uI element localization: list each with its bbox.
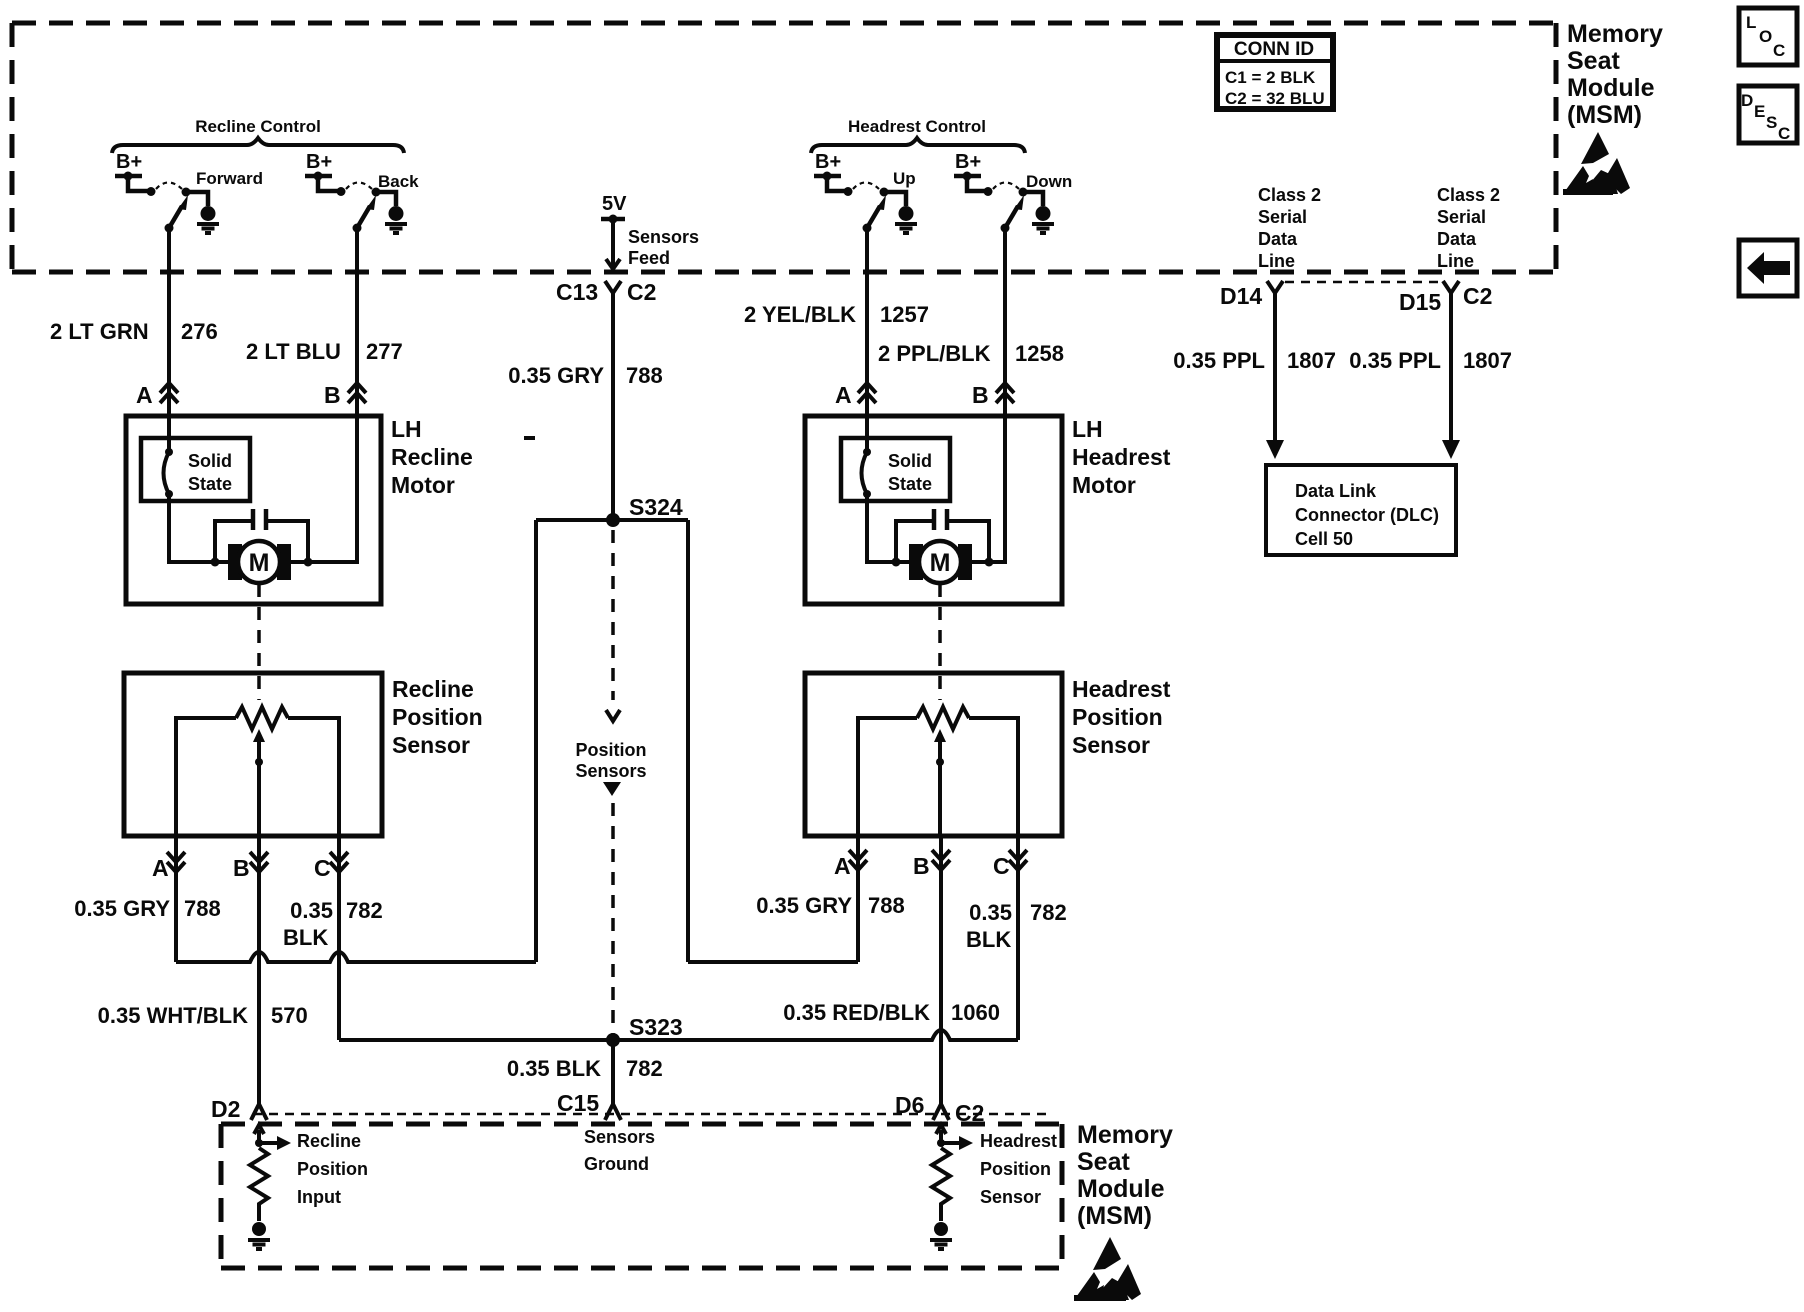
wire: recline pin B circuit 570 down to D2 (257, 836, 261, 1105)
svg-text:0.35 PPL: 0.35 PPL (1349, 348, 1441, 373)
pin B chevrons (recline motor) (324, 382, 366, 408)
wire: headrest pin A through solid state to motor (865, 416, 869, 452)
B+ feed (recline forward switch) (115, 151, 156, 196)
label: 0.35 BLK 782 (S323 to C15) (507, 1056, 663, 1081)
CONN ID table (1217, 35, 1333, 109)
pin C chevrons (headrest sensor) (993, 850, 1027, 879)
svg-text:D14: D14 (1220, 283, 1262, 309)
wire: S324 horizontal branch (536, 518, 688, 522)
connector D14 (1220, 281, 1283, 309)
solid state block (recline) (141, 438, 250, 501)
switch: headrest up (853, 169, 916, 233)
svg-text:A: A (834, 853, 851, 879)
ground (recline position input) (248, 1222, 270, 1249)
svg-text:1258: 1258 (1015, 341, 1064, 366)
svg-text:Module: Module (1077, 1175, 1165, 1203)
DESC reference box (1739, 86, 1797, 143)
svg-text:A: A (152, 855, 169, 881)
svg-text:State: State (888, 474, 932, 494)
label: 0.35 GRY 788 (recline A) (74, 896, 221, 921)
svg-text:S323: S323 (629, 1014, 683, 1040)
motor M2 (headrest) (909, 541, 972, 583)
svg-text:E: E (1754, 102, 1765, 121)
label: 0.35 WHT/BLK 570 (98, 1003, 308, 1028)
5V sensors feed source (601, 193, 627, 224)
svg-text:C2 = 32 BLU: C2 = 32 BLU (1225, 89, 1325, 108)
svg-text:Headrest: Headrest (1072, 444, 1171, 470)
wire: headrest pin B circuit 1060 down to D6 (939, 836, 943, 1105)
svg-text:C: C (993, 853, 1010, 879)
svg-text:Position: Position (392, 704, 483, 730)
capacitor across recline motor (211, 509, 313, 567)
svg-text:Solid: Solid (888, 451, 932, 471)
svg-text:Position: Position (576, 740, 647, 760)
svg-text:B+: B+ (815, 151, 841, 173)
svg-text:Sensors: Sensors (628, 227, 699, 247)
svg-text:782: 782 (346, 898, 383, 923)
svg-text:Position: Position (297, 1159, 368, 1179)
ground (headrest up switch) (895, 206, 917, 233)
pointer triangle (position sensors) (603, 782, 621, 796)
connector C15 (557, 1090, 621, 1120)
Headrest Position Sensor box (805, 673, 1062, 836)
potentiometer (headrest) (858, 707, 1018, 836)
svg-text:Sensor: Sensor (1072, 732, 1150, 758)
LH Recline Motor box (126, 416, 381, 604)
wire: recline pin C down to S323 bus (337, 836, 341, 1040)
svg-text:B: B (233, 855, 250, 881)
svg-text:B+: B+ (955, 151, 981, 173)
svg-text:A: A (835, 382, 852, 408)
svg-text:M: M (249, 549, 270, 577)
svg-text:C13: C13 (556, 279, 598, 305)
wire: down switch contact to ground (1023, 192, 1043, 206)
label: Sensors Feed (628, 227, 699, 268)
svg-text:Motor: Motor (1072, 472, 1136, 498)
svg-text:Recline: Recline (391, 444, 473, 470)
wire: forward switch contact to ground (186, 192, 208, 206)
svg-text:277: 277 (366, 339, 403, 364)
svg-text:A: A (136, 382, 153, 408)
wiper arrow (recline) (253, 729, 265, 836)
headrest position sensor arrow (936, 1125, 973, 1150)
svg-text:Headrest: Headrest (980, 1131, 1057, 1151)
svg-text:C1 = 2 BLK: C1 = 2 BLK (1225, 68, 1316, 87)
label: 0.35 RED/BLK 1060 (783, 1000, 1000, 1025)
Memory Seat Module (MSM) bottom dashed enclosure (221, 1124, 1062, 1268)
wire: feed bus from S324 right branch to headrest A (688, 960, 858, 964)
svg-text:B: B (913, 853, 930, 879)
svg-text:0.35: 0.35 (290, 898, 333, 923)
wire: circuit 782 from S323 down to C15 (611, 1040, 615, 1105)
svg-text:0.35 GRY: 0.35 GRY (508, 363, 604, 388)
svg-text:Down: Down (1026, 172, 1072, 191)
label: 0.35 PPL 1807 (left) (1173, 348, 1336, 373)
svg-text:2 YEL/BLK: 2 YEL/BLK (744, 302, 856, 327)
svg-text:2 PPL/BLK: 2 PPL/BLK (878, 341, 991, 366)
solid state switch curve (headrest) (862, 448, 872, 498)
svg-text:Recline Control: Recline Control (195, 117, 321, 136)
svg-text:Seat: Seat (1567, 47, 1620, 75)
label: Recline Position Sensor (392, 676, 483, 758)
wire: circuit 276 from forward switch to recline motor pin A (167, 228, 171, 416)
stray mark (524, 436, 535, 440)
svg-text:B+: B+ (306, 151, 332, 173)
svg-text:Cell 50: Cell 50 (1295, 529, 1353, 549)
svg-text:Motor: Motor (391, 472, 455, 498)
svg-text:Sensors: Sensors (575, 761, 646, 781)
svg-text:788: 788 (184, 896, 221, 921)
svg-text:(MSM): (MSM) (1567, 101, 1642, 129)
svg-text:Seat: Seat (1077, 1148, 1130, 1176)
motor M1 (recline) (228, 541, 291, 583)
connector row thin dashed line (bottom) (253, 1113, 1052, 1116)
mechanical link: position sensors dashed line with arrow (606, 530, 620, 721)
LH Headrest Motor box (805, 416, 1062, 604)
svg-text:Class 2: Class 2 (1437, 185, 1500, 205)
label: 0.35 GRY 788 (headrest A) (756, 893, 905, 918)
resistor (headrest position sensor) (932, 1148, 950, 1221)
svg-text:Line: Line (1437, 251, 1474, 271)
label: Sensors Ground (584, 1127, 655, 1174)
LOC reference box (1739, 8, 1797, 65)
svg-text:Position: Position (1072, 704, 1163, 730)
pin B chevrons (recline sensor) (233, 852, 268, 881)
svg-text:(MSM): (MSM) (1077, 1202, 1152, 1230)
svg-text:1257: 1257 (880, 302, 929, 327)
svg-text:Back: Back (378, 172, 419, 191)
wire: circuit 1807 from D15 to DLC (1442, 293, 1460, 459)
mechanical link: recline motor to position sensor (257, 584, 261, 700)
connector row dashed link D14 to D15 (1285, 281, 1441, 284)
Data Link Connector (DLC) box (1266, 465, 1456, 555)
pin B chevrons (headrest sensor) (913, 850, 950, 879)
label: Memory Seat Module (MSM) bottom right (1077, 1121, 1173, 1230)
pin A chevrons (headrest sensor) (834, 850, 867, 879)
svg-text:State: State (188, 474, 232, 494)
svg-text:Forward: Forward (196, 169, 263, 188)
label: Memory Seat Module (MSM) top right (1567, 20, 1663, 129)
wire: up switch contact to ground (884, 192, 906, 206)
svg-text:2 LT BLU: 2 LT BLU (246, 339, 341, 364)
pin A chevrons (recline sensor) (152, 852, 185, 881)
svg-text:Data Link: Data Link (1295, 481, 1377, 501)
svg-text:S324: S324 (629, 494, 683, 520)
label: 0.35 PPL 1807 (right) (1349, 348, 1512, 373)
wire: S324 right branch down (686, 520, 690, 962)
label: 0.35 GRY 788 (feed) (508, 363, 663, 388)
wiper arrow (headrest) (934, 729, 946, 836)
switch: recline forward (156, 169, 263, 233)
recline position input arrow (254, 1125, 291, 1150)
wire: pin A through solid state to motor (167, 416, 171, 452)
svg-text:Module: Module (1567, 74, 1655, 102)
svg-text:S: S (1766, 113, 1777, 132)
splice S323 (606, 1014, 683, 1047)
svg-text:Sensor: Sensor (392, 732, 470, 758)
label: Class 2 Serial Data Line (left) (1258, 185, 1321, 271)
wire: headrest pin B down to motor (971, 416, 1005, 562)
B+ feed (headrest up switch) (814, 151, 853, 196)
svg-text:CONN ID: CONN ID (1234, 39, 1314, 60)
svg-text:Input: Input (297, 1187, 341, 1207)
svg-text:Position: Position (980, 1159, 1051, 1179)
wire: circuit 1257 from up switch to headrest motor pin A (865, 228, 869, 416)
solid state block (headrest) (841, 438, 950, 501)
pin C chevrons (recline sensor) (314, 852, 348, 881)
wire: circuit 788 sensor feed down to S324 (611, 293, 615, 520)
svg-text:Class 2: Class 2 (1258, 185, 1321, 205)
svg-text:C2: C2 (1463, 283, 1492, 309)
wire: S323 ground bus (hops over headrest B) (339, 1030, 1018, 1040)
resistor (recline position input) (250, 1148, 268, 1221)
svg-text:1807: 1807 (1287, 348, 1336, 373)
label: 2 PPL/BLK 1258 (878, 341, 1064, 366)
wire: headrest pin A down to feed bus (856, 836, 860, 962)
svg-text:C: C (314, 855, 331, 881)
ground (headrest down switch) (1032, 206, 1054, 233)
wire: pin B down to motor (290, 416, 357, 562)
svg-text:LH: LH (1072, 416, 1103, 442)
label: Recline Position Input (297, 1131, 368, 1207)
wire: S324 left branch down (534, 520, 538, 962)
capacitor across headrest motor (892, 509, 994, 567)
svg-text:C2: C2 (627, 279, 656, 305)
svg-text:B: B (324, 382, 341, 408)
svg-text:Feed: Feed (628, 248, 670, 268)
brace over headrest control (811, 138, 1025, 153)
svg-text:BLK: BLK (966, 927, 1011, 952)
potentiometer (recline) (176, 707, 339, 836)
pin A chevrons (headrest motor) (835, 382, 876, 408)
ESD sensitivity symbol (bottom) (1074, 1237, 1141, 1301)
svg-text:Serial: Serial (1258, 207, 1307, 227)
svg-text:B+: B+ (116, 151, 142, 173)
switch: recline back (346, 172, 419, 233)
B+ feed (recline back switch) (305, 151, 346, 196)
svg-text:LH: LH (391, 416, 422, 442)
label: Class 2 Serial Data Line (right) (1437, 185, 1500, 271)
svg-text:BLK: BLK (283, 925, 328, 950)
svg-text:Memory: Memory (1077, 1121, 1173, 1149)
svg-text:C: C (1778, 124, 1790, 143)
B+ feed (headrest down switch) (954, 151, 993, 196)
mechanical link: dashed line continues to S323 (611, 803, 615, 1034)
label: LH Headrest Motor (1072, 416, 1171, 498)
svg-text:Data: Data (1258, 229, 1298, 249)
svg-text:0.35 PPL: 0.35 PPL (1173, 348, 1265, 373)
splice S324 (606, 494, 683, 527)
label: 2 LT BLU 277 (246, 339, 403, 364)
svg-text:D2: D2 (211, 1096, 240, 1122)
wire: feed bus from recline A to S324 left branch (hops over B and C) (176, 952, 536, 962)
connector D2 (211, 1096, 267, 1122)
switch: headrest down (993, 172, 1072, 233)
connector D6 / C2 (895, 1092, 984, 1126)
svg-text:788: 788 (626, 363, 663, 388)
svg-text:D15: D15 (1399, 289, 1441, 315)
svg-text:Recline: Recline (297, 1131, 361, 1151)
svg-text:Sensors: Sensors (584, 1127, 655, 1147)
svg-text:C2: C2 (955, 1100, 984, 1126)
svg-text:L: L (1746, 13, 1756, 32)
svg-text:Recline: Recline (392, 676, 474, 702)
wire: back switch contact to ground (376, 192, 396, 206)
svg-text:C: C (1773, 41, 1785, 60)
ground (recline forward switch) (197, 206, 219, 233)
svg-text:D6: D6 (895, 1092, 924, 1118)
svg-text:0.35 RED/BLK: 0.35 RED/BLK (783, 1000, 930, 1025)
label: Headrest Position Sensor (1072, 676, 1171, 758)
Memory Seat Module (MSM) top dashed enclosure (12, 23, 1556, 272)
svg-text:Headrest Control: Headrest Control (848, 117, 986, 136)
solid state switch curve (recline) (164, 448, 174, 498)
svg-text:1807: 1807 (1463, 348, 1512, 373)
mechanical link: headrest motor to position sensor (938, 584, 942, 700)
ground (recline back switch) (385, 206, 407, 233)
svg-text:0.35 WHT/BLK: 0.35 WHT/BLK (98, 1003, 248, 1028)
svg-text:782: 782 (1030, 900, 1067, 925)
label: Position Sensors (575, 740, 646, 781)
svg-text:782: 782 (626, 1056, 663, 1081)
label: Headrest Position Sensor (980, 1131, 1057, 1207)
label: 0.35 BLK 782 (recline C) (283, 898, 383, 950)
wire: recline pin A down to feed bus (174, 836, 178, 962)
wire: circuit 1258 from down switch to headrest motor pin B (1003, 228, 1007, 416)
svg-text:2 LT GRN: 2 LT GRN (50, 319, 149, 344)
svg-text:Connector (DLC): Connector (DLC) (1295, 505, 1439, 525)
svg-text:1060: 1060 (951, 1000, 1000, 1025)
pin A chevrons (recline motor) (136, 382, 178, 408)
ground (headrest position sensor) (930, 1222, 952, 1249)
svg-text:B: B (972, 382, 989, 408)
svg-text:570: 570 (271, 1003, 308, 1028)
svg-text:Serial: Serial (1437, 207, 1486, 227)
connector D15 / C2 (1399, 281, 1492, 315)
svg-text:Memory: Memory (1567, 20, 1663, 48)
svg-text:788: 788 (868, 893, 905, 918)
svg-text:Solid: Solid (188, 451, 232, 471)
svg-text:Line: Line (1258, 251, 1295, 271)
wire: 5V feed down to MSM edge with arrow (606, 219, 620, 269)
back-arrow reference box (1739, 240, 1797, 296)
svg-text:D: D (1741, 91, 1753, 110)
svg-text:0.35 GRY: 0.35 GRY (74, 896, 170, 921)
wire: circuit 1807 from D14 to DLC (1266, 293, 1284, 459)
wire: circuit 277 from back switch to recline motor pin B (355, 228, 359, 416)
label: 2 YEL/BLK 1257 (744, 302, 929, 327)
svg-text:0.35 GRY: 0.35 GRY (756, 893, 852, 918)
svg-text:M: M (930, 549, 951, 577)
pin B chevrons (headrest motor) (972, 382, 1014, 408)
brace over recline control (112, 138, 404, 153)
svg-text:0.35 BLK: 0.35 BLK (507, 1056, 601, 1081)
svg-text:Up: Up (893, 169, 916, 188)
svg-text:Headrest: Headrest (1072, 676, 1171, 702)
ESD sensitivity symbol (top) (1563, 132, 1630, 195)
svg-text:Ground: Ground (584, 1154, 649, 1174)
svg-text:Sensor: Sensor (980, 1187, 1041, 1207)
svg-text:C15: C15 (557, 1090, 599, 1116)
svg-text:Data: Data (1437, 229, 1477, 249)
Recline Position Sensor box (124, 673, 382, 836)
label: LH Recline Motor (391, 416, 473, 498)
svg-text:5V: 5V (602, 193, 627, 215)
svg-text:O: O (1759, 27, 1772, 46)
label: 0.35 BLK 782 (headrest C) (966, 900, 1067, 952)
wire: headrest pin C down to S323 bus (1016, 836, 1020, 1040)
label: 2 LT GRN 276 (50, 319, 218, 344)
connector C13 / C2 (556, 279, 656, 305)
svg-text:276: 276 (181, 319, 218, 344)
svg-text:0.35: 0.35 (969, 900, 1012, 925)
